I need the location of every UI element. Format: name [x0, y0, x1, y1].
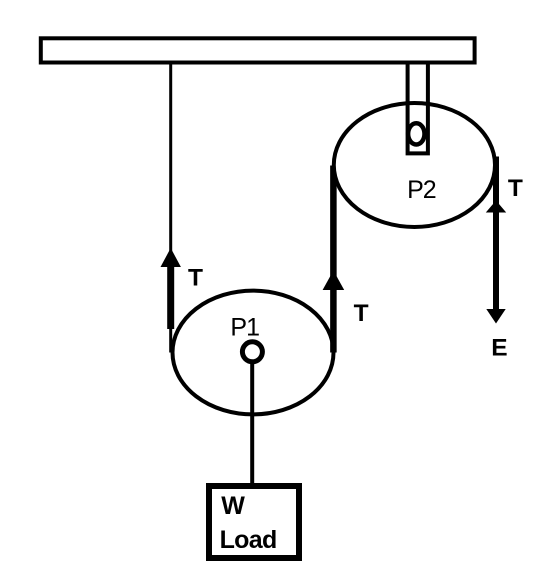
wire rope from P1 axle to load: [250, 364, 254, 484]
arrow T2 head (middle rope tension): [323, 271, 345, 291]
beam (ceiling support bar): [41, 38, 475, 62]
wire right rope (P2 down): [493, 157, 499, 311]
arrow T3 head (right rope tension, up): [486, 201, 506, 213]
wire middle rope (P2 to P1): [330, 166, 337, 353]
axle of pulley P1: [242, 342, 262, 362]
svg-text:T: T: [188, 265, 203, 292]
arrow T1 shaft (left rope tension): [167, 263, 174, 329]
svg-text:T: T: [508, 175, 523, 202]
bracket hanger for P2: [408, 63, 428, 153]
arrow E head (effort, down): [486, 309, 505, 324]
load box W: [209, 486, 299, 558]
svg-text:T: T: [354, 300, 369, 327]
svg-text:Load: Load: [220, 526, 277, 554]
arrow T1 head: [161, 248, 181, 267]
svg-text:E: E: [491, 335, 507, 362]
svg-text:W: W: [221, 492, 245, 520]
axle of pulley P2: [408, 123, 424, 144]
wire left rope (beam to pulley P1): [169, 63, 172, 353]
pulley P2 wheel: [334, 103, 495, 227]
svg-text:P1: P1: [230, 313, 259, 341]
svg-text:P2: P2: [407, 176, 436, 204]
pulley P1 wheel: [173, 291, 334, 415]
